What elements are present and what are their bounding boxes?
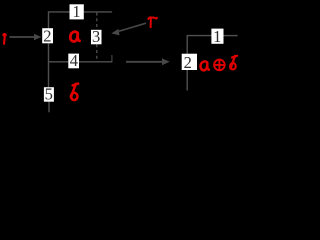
label b (red)	[71, 84, 78, 101]
svg-text:3: 3	[92, 27, 100, 46]
arrow i to box2	[10, 34, 42, 41]
wire corner box2 to box1	[49, 12, 70, 29]
node box 2 left	[42, 26, 53, 45]
wire branch to box4	[49, 61, 69, 63]
node box 2 right	[182, 53, 197, 72]
svg-text:4: 4	[70, 51, 78, 70]
svg-text:2: 2	[184, 53, 192, 72]
dashed wire above box3	[96, 13, 98, 30]
label i (red)	[2, 33, 6, 44]
arrow r to edge	[111, 23, 146, 35]
svg-text:1: 1	[72, 2, 80, 21]
label a (red, measured qubit)	[70, 32, 79, 42]
wire corner box2R to box1R	[187, 36, 211, 54]
wire left vertical box2 to box5	[48, 43, 50, 87]
label a xor b : b (red)	[230, 56, 237, 70]
node box 1 left	[70, 2, 84, 21]
arrow middle (transformation)	[126, 58, 170, 65]
node box 5 left	[44, 85, 54, 104]
label a xor b : a (red)	[200, 61, 208, 70]
node box 3 left	[91, 27, 102, 46]
wire below box5	[48, 102, 50, 113]
svg-text:1: 1	[213, 27, 221, 46]
wire right vertical stub	[111, 55, 113, 62]
wire box1 right stub	[84, 11, 112, 13]
node box 4 left	[68, 51, 79, 70]
dashed wire below box3	[96, 44, 98, 61]
wire bottom-right horizontal to box4	[79, 61, 112, 63]
label xor symbol (red)	[214, 60, 225, 71]
svg-text:5: 5	[45, 85, 53, 104]
node box 1 right	[211, 27, 223, 46]
wire right stub of box1R	[223, 35, 237, 37]
svg-text:2: 2	[43, 26, 51, 45]
wire below box2R	[186, 70, 188, 91]
label r (red)	[148, 17, 157, 27]
